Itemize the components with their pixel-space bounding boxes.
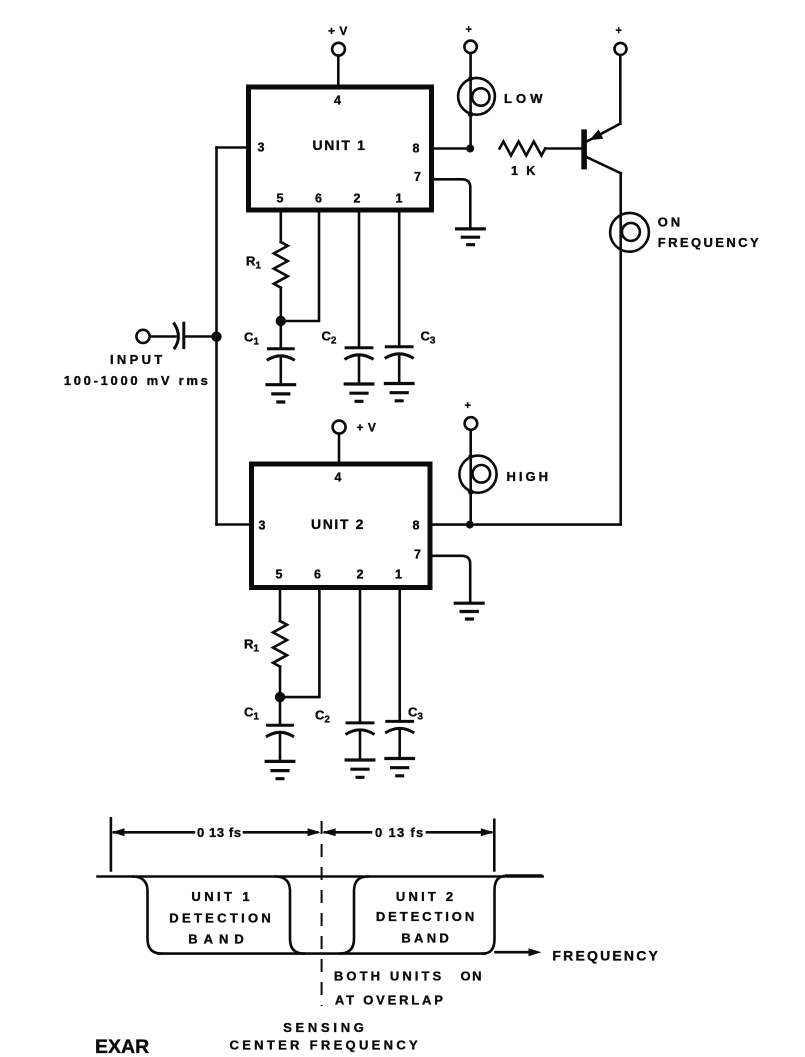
wire pin 8 unit 2 to collector wire [431, 523, 621, 526]
left dimension arrow line [114, 831, 317, 834]
INPUT terminal circle [136, 330, 149, 343]
wire +V to pin 4 (unit 1) [337, 56, 340, 85]
ground C3 (unit 1) [384, 384, 415, 401]
transistor Q1 emitter arrow [589, 129, 603, 140]
svg-text:CENTER FREQUENCY: CENTER FREQUENCY [230, 1037, 421, 1052]
transistor Q1 emitter [587, 124, 620, 142]
svg-text:FREQUENCY: FREQUENCY [658, 235, 761, 250]
wire LOW terminal through lamp to junction [469, 53, 472, 148]
response top line [98, 875, 543, 878]
svg-text:FREQUENCY: FREQUENCY [552, 947, 660, 963]
svg-text:DETECTION: DETECTION [169, 910, 274, 925]
svg-text:+: + [465, 400, 471, 412]
svg-text:7: 7 [414, 548, 421, 562]
wire R1 to junction (unit 2) [279, 667, 282, 698]
frequency axis arrow [496, 951, 532, 954]
lamp ON FREQUENCY outer circle [610, 213, 649, 252]
capacitor C3 (unit 2) [398, 588, 401, 721]
LOW supply terminal [464, 41, 476, 53]
input bus vertical wire [215, 148, 218, 525]
svg-text:UNIT 2: UNIT 2 [396, 889, 456, 904]
wire +V to pin 4 (unit 2) [338, 434, 341, 463]
wire coupling cap to input bus [185, 335, 217, 338]
svg-text:SENSING: SENSING [283, 1020, 367, 1035]
svg-text:100-1000 mV rms: 100-1000 mV rms [64, 373, 211, 388]
band wall left outer (unit 1 band) [133, 877, 162, 954]
ground C2 (unit 1) [344, 384, 375, 401]
svg-text:1 K: 1 K [511, 164, 538, 178]
ground pin 7 (unit 2) [454, 603, 485, 619]
wire HIGH terminal through lamp to junction [469, 430, 472, 524]
wire pin 7 unit 1 to ground [432, 179, 471, 227]
+V terminal (unit 1) [332, 43, 345, 56]
band wall right inner (unit 2 band left) [340, 877, 368, 954]
junction input bus [211, 332, 221, 342]
lamp HIGH inner circle [473, 465, 491, 483]
ground C1 (unit 1) [265, 385, 296, 402]
svg-text:6: 6 [314, 568, 321, 582]
svg-text:+ V: + V [357, 421, 377, 435]
junction R1/C1/pin6 (unit 1) [276, 316, 286, 326]
svg-text:8: 8 [413, 519, 420, 533]
lamp ON FREQUENCY inner circle [622, 223, 640, 241]
junction R1/C1/pin6 (unit 2) [275, 692, 285, 702]
svg-text:HIGH: HIGH [507, 469, 552, 484]
HIGH supply terminal [465, 417, 478, 430]
wire pin 3 unit 1 to input bus [217, 146, 249, 149]
response top line thick right end [505, 874, 543, 877]
svg-text:DETECTION: DETECTION [376, 909, 477, 924]
transistor Q1 collector [587, 157, 621, 173]
wire emitter to +V terminal [619, 55, 622, 123]
svg-text:LOW: LOW [504, 91, 547, 106]
svg-text:1: 1 [395, 568, 402, 582]
svg-text:+ V: + V [328, 24, 348, 38]
lamp LOW inner circle [472, 88, 489, 105]
resistor R1 (unit 2) [273, 621, 287, 667]
transistor Q1 base bar [581, 129, 587, 169]
coupling capacitor curved plate [173, 322, 178, 349]
svg-text:UNIT 1: UNIT 1 [191, 889, 253, 904]
ground C1 (unit 2) [265, 761, 296, 778]
resistor R1 (unit 1) [274, 242, 288, 288]
resistor 1K [500, 142, 546, 156]
junction pin 8 / HIGH lamp (unit 2) [466, 521, 474, 529]
capacitor C1 (unit 1) [279, 321, 282, 348]
ground C3 (unit 2) [384, 759, 415, 776]
svg-text:8: 8 [413, 142, 420, 156]
capacitor C3 (unit 1) [398, 210, 401, 346]
band wall left inner (unit 1 band right) [276, 877, 304, 954]
capacitor C2 (unit 1) [358, 210, 361, 347]
dot wire/lamp top (HIGH) [468, 454, 473, 459]
right dimension tick [493, 820, 496, 871]
svg-text:1: 1 [396, 192, 403, 206]
wire pin 5 unit 2 to R1 [279, 588, 282, 622]
svg-text:2: 2 [357, 568, 364, 582]
svg-text:UNIT 2: UNIT 2 [311, 516, 365, 532]
wire pin 6 unit 2 to junction [284, 588, 319, 698]
wire pin 7 unit 2 to ground [431, 556, 471, 602]
junction pin 8 / LOW lamp (unit 1) [466, 145, 474, 153]
wire 1K to transistor base [545, 147, 581, 150]
svg-text:+: + [616, 25, 622, 37]
right dimension arrowheads [323, 828, 336, 836]
svg-text:5: 5 [276, 568, 283, 582]
ground pin 7 (unit 1) [455, 229, 486, 245]
wire pin 5 unit 1 to R1 [279, 210, 282, 242]
coupling capacitor straight plate [182, 322, 185, 349]
svg-text:5: 5 [277, 192, 284, 206]
wire input bus to pin 3 unit 2 [217, 523, 252, 526]
right dimension arrow line [325, 831, 491, 834]
svg-text:UNIT 1: UNIT 1 [313, 137, 367, 153]
dot wire/lamp top [468, 76, 473, 81]
svg-text:EXAR: EXAR [95, 1036, 149, 1057]
lamp HIGH outer circle [459, 456, 496, 493]
svg-text:ON: ON [461, 969, 484, 984]
lamp LOW outer circle [458, 78, 495, 115]
wire input terminal to coupling cap [150, 335, 176, 338]
svg-text:3: 3 [259, 519, 266, 533]
svg-text:+: + [466, 24, 472, 36]
IC UNIT 1 box [249, 87, 432, 210]
dot wire/lamp bottom [468, 112, 474, 118]
wire R1 to junction (unit 1) [279, 288, 282, 321]
left dimension arrowheads [112, 828, 125, 836]
svg-text:3: 3 [258, 141, 265, 155]
capacitor C1 (unit 2) [279, 697, 282, 724]
ground C2 (unit 2) [345, 760, 376, 777]
wire collector down through ON FREQUENCY lamp [619, 173, 622, 524]
left dimension tick [110, 818, 113, 870]
svg-text:BAND: BAND [188, 932, 250, 947]
band wall right outer (unit 2 band right) [483, 876, 506, 954]
response bottom line [158, 952, 485, 955]
svg-text:BAND: BAND [401, 930, 452, 945]
svg-text:0 13 fs: 0 13 fs [375, 825, 425, 840]
dot wire/lamp bottom (HIGH) [468, 489, 474, 495]
+V terminal (unit 2) [333, 421, 346, 434]
wire pin 8 unit 1 to junction [432, 147, 471, 150]
svg-text:7: 7 [414, 170, 421, 184]
center dashed line [321, 821, 323, 1006]
svg-text:INPUT: INPUT [110, 352, 166, 367]
wire pin 6 unit 1 to junction [285, 210, 319, 321]
svg-text:AT OVERLAP: AT OVERLAP [335, 993, 446, 1008]
IC UNIT 2 box [252, 464, 431, 588]
svg-text:BOTH UNITS: BOTH UNITS [334, 969, 444, 984]
svg-text:6: 6 [315, 192, 322, 206]
svg-text:2: 2 [354, 192, 361, 206]
svg-text:0 13 fs: 0 13 fs [197, 825, 242, 840]
svg-text:4: 4 [335, 471, 342, 485]
capacitor C2 (unit 2) [359, 588, 362, 723]
svg-text:ON: ON [658, 214, 683, 229]
svg-text:4: 4 [334, 94, 341, 108]
right supply terminal [615, 43, 627, 55]
